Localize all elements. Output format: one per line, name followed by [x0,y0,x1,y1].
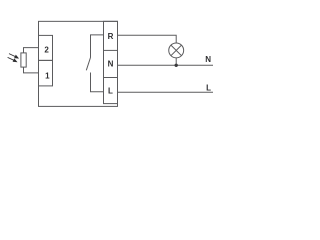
wire: internal, terminal R to switch contact [91,35,104,58]
lamp E1 [169,43,184,58]
svg-text:L: L [206,84,211,93]
svg-text:2: 2 [44,46,49,55]
wire: internal, switch to terminal L [91,73,104,92]
controller box U1 (twilight switch body) [39,21,118,106]
switch S1 blade (open contact) [86,58,90,71]
terminal block right (terminals R, N, L) [104,21,118,103]
wire: photoresistor bottom lead to terminal 1 [24,67,39,73]
svg-text:N: N [205,55,211,64]
wire: L line [118,91,214,93]
wire: terminal R to lamp [118,35,177,43]
svg-text:1: 1 [45,71,50,80]
terminal block left (terminals 2 and 1) [39,35,53,60]
wire: lamp to N line [175,58,177,66]
svg-text:R: R [108,32,114,41]
wire: N line [118,64,214,66]
svg-text:L: L [108,87,113,96]
wire: photoresistor top lead to terminal 2 [24,48,39,53]
light arrows onto photoresistor [8,54,18,62]
photoresistor B1 body [21,53,26,67]
svg-text:N: N [108,60,114,69]
junction: lamp return on N line [175,64,178,67]
